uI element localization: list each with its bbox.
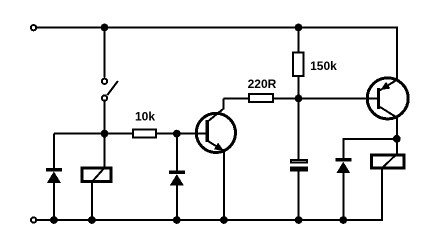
- junction rail / D2: [173, 216, 181, 224]
- switch S1: [102, 79, 118, 101]
- svg-text:150k: 150k: [310, 59, 337, 73]
- junction node A: [101, 130, 109, 138]
- relay K2: [372, 154, 404, 168]
- junction node C: [295, 95, 303, 103]
- wire bottom rail: [36, 219, 383, 221]
- wire C1 to bottom rail: [298, 171, 300, 220]
- wire node C to capacitor C1: [298, 98, 300, 158]
- junction top rail / switch: [101, 24, 109, 32]
- wire Q1 emitter to bottom rail: [223, 151, 225, 220]
- wire D2 to bottom rail: [176, 185, 178, 220]
- wire node B to diode D2: [176, 134, 178, 171]
- wire node A to relay K1: [104, 134, 106, 167]
- resistor R1 10k: [133, 109, 156, 137]
- wire row to diode D1: [53, 134, 55, 168]
- wire switch to node A: [104, 102, 106, 134]
- terminal bottom-left: [31, 217, 36, 222]
- wire base row: [54, 133, 206, 135]
- junction rail / C1: [295, 216, 303, 224]
- svg-text:10k: 10k: [135, 109, 155, 123]
- transistor Q2: [367, 78, 408, 119]
- relay K1: [82, 168, 111, 182]
- wire 150k to node C: [298, 77, 300, 99]
- junction top rail / 150k: [295, 24, 303, 32]
- diode D3: [335, 158, 351, 173]
- junction node D: [393, 135, 401, 143]
- diode D2: [169, 171, 185, 186]
- junction rail / D1: [50, 216, 58, 224]
- wire K1 to bottom rail: [91, 183, 93, 220]
- wire D1 to bottom rail: [53, 183, 55, 220]
- svg-text:220R: 220R: [248, 77, 277, 91]
- junction rail / K1: [88, 216, 96, 224]
- wire top rail: [36, 28, 396, 80]
- wire top rail to switch: [104, 28, 106, 78]
- capacitor C1: [290, 160, 308, 171]
- wire D3 to bottom rail: [342, 173, 344, 220]
- resistor R3 150k: [293, 53, 337, 76]
- wire top rail to 150k: [298, 28, 300, 52]
- wire node D to relay K2: [396, 139, 398, 154]
- wire Q2 collector to node D: [396, 118, 398, 139]
- junction rail / D3: [339, 216, 347, 224]
- wire K2 to bottom rail: [381, 169, 383, 221]
- wire collector row to Q2 base: [223, 97, 376, 99]
- terminal top-left: [31, 25, 36, 30]
- diode D1: [46, 168, 62, 183]
- resistor R2 220R: [248, 77, 277, 102]
- wire node D to diode D3: [343, 139, 397, 158]
- junction node B: [173, 130, 181, 138]
- transistor Q1: [196, 98, 235, 152]
- junction rail / Q1 emitter: [220, 216, 228, 224]
